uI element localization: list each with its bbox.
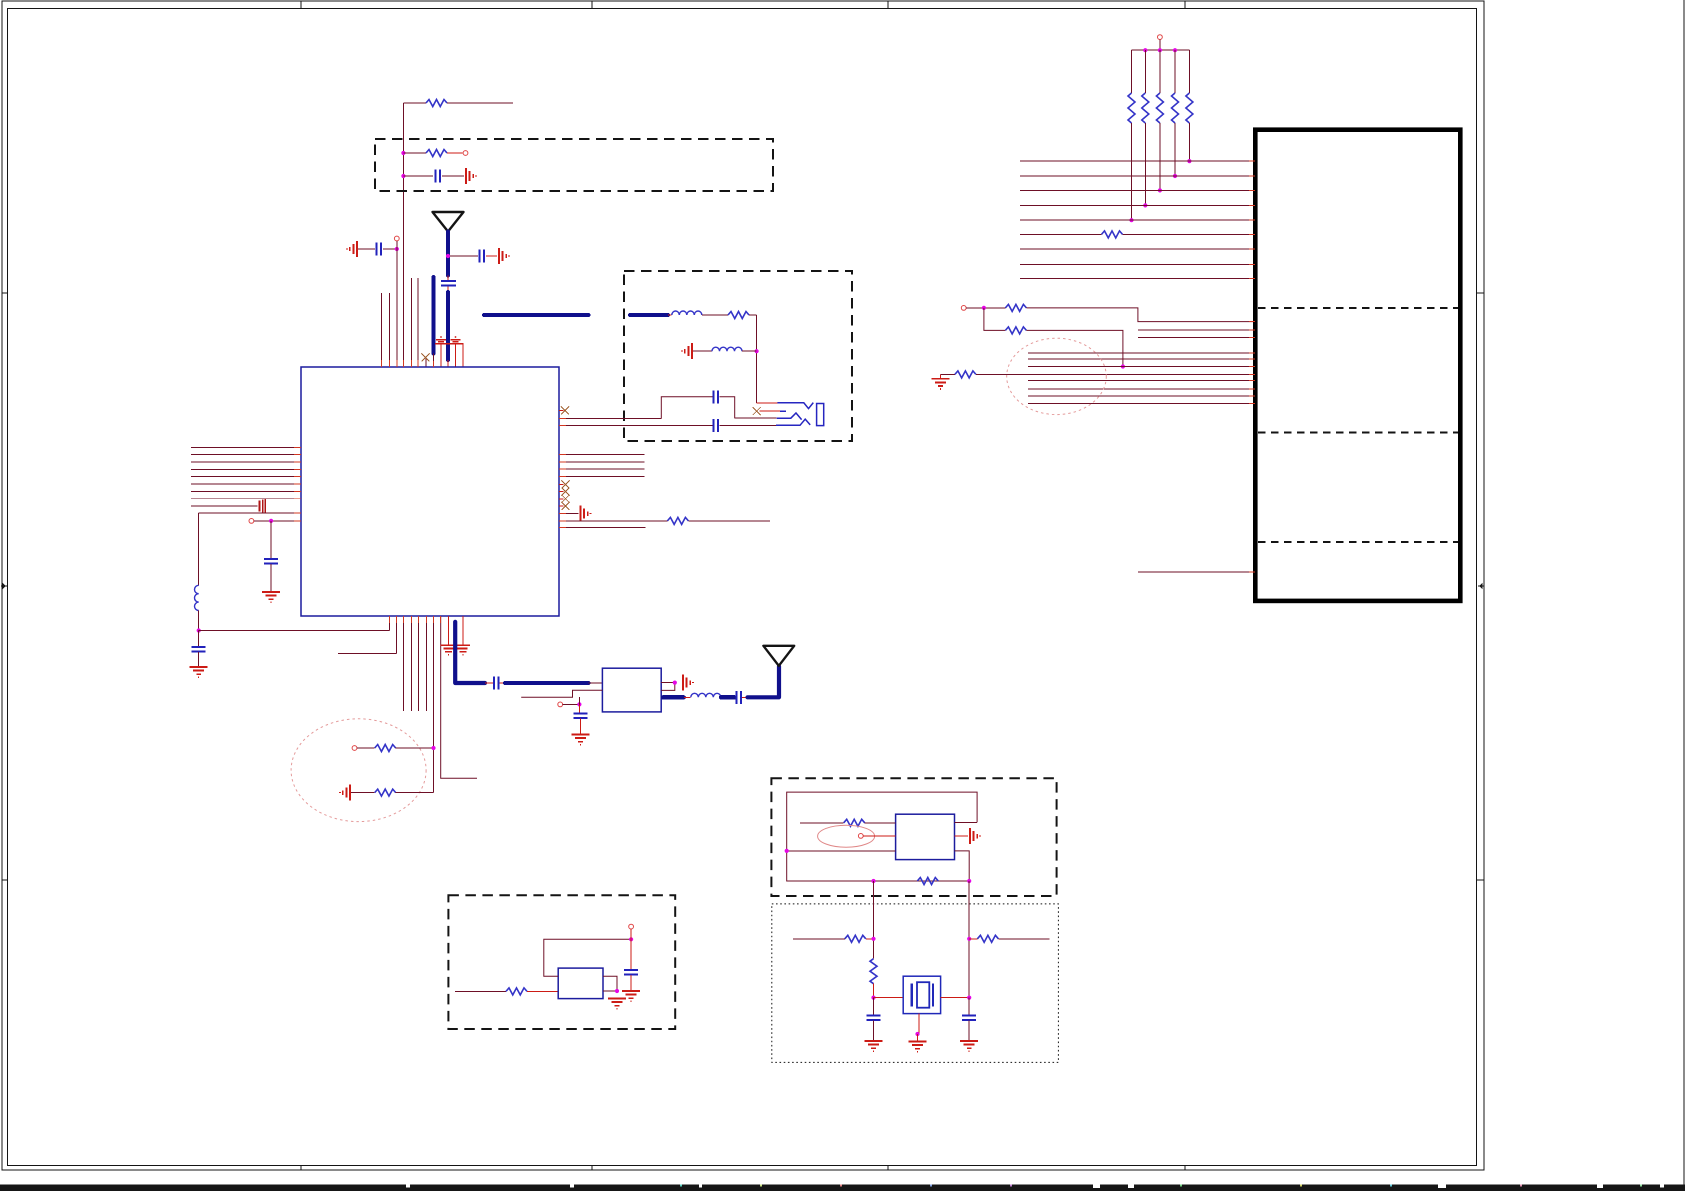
thick stub in box (630, 313, 668, 317)
wire (873, 984, 875, 998)
wire from terminal (254, 520, 301, 522)
resistor R_line6 (1102, 231, 1123, 238)
connector body (1255, 130, 1460, 601)
wire down from pin10 (198, 513, 200, 585)
zone tick right b (1477, 879, 1485, 881)
antenna ANT2 (763, 646, 794, 666)
dashed box region 3 (771, 778, 1056, 896)
dashed box region 2 (624, 271, 852, 441)
no connect X (561, 406, 569, 414)
terminal (558, 702, 563, 707)
ground (683, 675, 693, 691)
pin stubs red (441, 344, 463, 367)
nc stubs with X (559, 485, 564, 506)
title strip gaps (406, 1185, 1664, 1189)
resistor RP4 (1172, 50, 1179, 178)
wire from IC pin (559, 417, 661, 419)
shunt capacitor C_l1 (264, 521, 278, 591)
left entry wire (873, 881, 875, 959)
zone tick right a (1477, 292, 1485, 294)
ground (262, 592, 280, 602)
wire vertical net to pin (402, 103, 404, 367)
PA block U2 (602, 668, 661, 712)
antenna ANT1 (433, 212, 464, 232)
inductor L_left vertical (195, 585, 199, 610)
resistor R_b2 (340, 785, 434, 801)
junction (615, 989, 619, 993)
double ground bars (441, 645, 470, 655)
divider 1 (1258, 307, 1458, 309)
wire from IC pin 2 (559, 424, 713, 426)
power flag B (451, 336, 461, 342)
resistor R_o1 (800, 819, 896, 826)
resistor RP1 (1128, 50, 1135, 222)
junction (629, 937, 633, 941)
terminal (858, 834, 863, 839)
node junction (446, 254, 450, 258)
jack top wire (757, 402, 778, 404)
terminal (463, 151, 468, 156)
coupling loop wire (661, 397, 712, 419)
ground (970, 828, 980, 844)
pin wire (559, 527, 646, 529)
IC top pins (381, 278, 426, 367)
terminal (629, 924, 634, 929)
sheet right page edge (1683, 0, 1685, 1191)
capacitor C_m1 (714, 390, 719, 403)
regulator block U4 (558, 968, 603, 999)
zone tick bottom 2 (591, 1166, 593, 1171)
power flag A (436, 336, 446, 342)
resistor R_in1 (401, 150, 462, 157)
X marks (562, 481, 570, 510)
dashed box region 1 (375, 139, 773, 191)
ground (466, 168, 476, 184)
wire (447, 360, 449, 367)
capacitor C_v1 (624, 939, 638, 990)
wire (433, 354, 435, 368)
transmission line thick 2 (431, 277, 435, 354)
transmission line thick 3 (446, 292, 450, 360)
zone arrow left (1, 584, 7, 588)
resistor R_x1 (793, 935, 876, 942)
capacitor C_out (736, 691, 747, 704)
ground pin (955, 835, 969, 837)
RF out thick stub (663, 695, 684, 699)
junction (871, 996, 875, 1000)
zone tick bottom 3 (887, 1166, 889, 1171)
wire to jack bottom (720, 424, 777, 426)
resistor R_x2 (967, 935, 1049, 942)
zone tick top 1 (300, 1, 302, 9)
junction (269, 519, 273, 523)
connector pin tips red (1249, 161, 1255, 572)
capacitor C_in1 (401, 170, 464, 183)
IC U1 body (301, 367, 559, 616)
no connect X (422, 354, 430, 362)
resistor R_top (403, 100, 513, 107)
ground (608, 999, 626, 1009)
wire to crystal (874, 997, 904, 999)
zone arrow right (1478, 584, 1484, 588)
capacitor C_left with ground (347, 241, 399, 257)
rail (1132, 49, 1190, 51)
feedback loop wire (787, 792, 977, 881)
junction (967, 996, 971, 1000)
pin to ground 2 (462, 616, 464, 645)
resistor R_b1 (352, 745, 436, 752)
ground (581, 506, 591, 522)
small capacitor on pin (260, 499, 266, 513)
junction (197, 628, 201, 632)
zone tick bottom 1 (300, 1166, 302, 1171)
zone tick top 4 (1184, 1, 1186, 9)
resistor R_x3 vertical (870, 959, 877, 984)
crystal bottom stub (915, 1014, 919, 1041)
terminal VCC (1158, 35, 1163, 40)
pin wire long to resistors (433, 616, 435, 793)
bus stub lines (1138, 330, 1255, 337)
shunt capacitor C_l2 (192, 631, 206, 667)
junction (785, 849, 789, 853)
crystal Y1 (903, 976, 940, 1013)
osc block U3 (896, 814, 955, 859)
terminal (394, 236, 399, 241)
capacitor C_ant (450, 250, 497, 263)
input resistor R_v1 (455, 988, 558, 995)
ground (909, 1042, 927, 1052)
bottom right pin wire (955, 851, 970, 881)
right pin wire to loop (955, 821, 978, 823)
wire (1159, 40, 1161, 51)
capacitor C_m2 (714, 419, 719, 432)
zone tick top 2 (591, 1, 593, 9)
capacitor C_x1 (867, 998, 881, 1040)
resistor R_g2 (984, 308, 1125, 369)
transmission line thick (446, 232, 450, 276)
power rail bar (435, 343, 464, 345)
no connect X (753, 407, 761, 415)
pin bus 4 wires (559, 454, 645, 476)
ground (960, 1041, 978, 1051)
ground (622, 991, 640, 1001)
zone tick left b (2, 879, 8, 881)
jack nc stub (760, 410, 787, 412)
terminal (249, 519, 254, 524)
nc pin stub (559, 409, 564, 411)
junction (755, 349, 759, 353)
jack J1 contacts (776, 403, 813, 426)
capacitor C_series in antenna line (441, 276, 456, 293)
pin to ground (448, 616, 450, 645)
pin3 wire (787, 850, 896, 852)
title strip color specks (680, 1185, 1642, 1187)
wire from terminal (563, 703, 580, 705)
RF thick line to block (505, 681, 588, 685)
junction (577, 702, 581, 706)
junction (673, 681, 677, 685)
left pin bus 9 wires (191, 447, 301, 506)
wire (863, 835, 895, 837)
highlight ellipse small (818, 825, 875, 847)
loop wire right (720, 397, 735, 418)
zone tick left a (2, 292, 8, 294)
capacitor C_rf1 (485, 677, 506, 690)
pin wire elbow right (441, 616, 477, 778)
shunt capacitor C_pa (574, 704, 588, 733)
highlight ellipse (1007, 338, 1107, 414)
junctions (1143, 48, 1177, 52)
single pin wire lower (1138, 571, 1255, 573)
resistor R_g3 with ground (932, 371, 1255, 389)
wire down (756, 315, 758, 403)
dotted box crystal (772, 904, 1059, 1063)
resistor R_fb (871, 878, 971, 885)
terminal (961, 306, 966, 311)
wire (630, 929, 632, 939)
pin to ground (559, 513, 579, 515)
RF thick line from IC (455, 622, 485, 683)
wire jog to block (521, 690, 602, 697)
right pin wires (661, 683, 675, 691)
wire pin10 (199, 512, 301, 514)
ground (572, 735, 590, 745)
wire up (578, 697, 580, 704)
resistor R_r1 long line (559, 517, 770, 524)
divider 3 (1258, 541, 1458, 543)
thick segment (721, 695, 735, 699)
resistor R_m1 (728, 312, 757, 319)
thick bus segment (484, 313, 589, 317)
pin wire 1 (389, 616, 391, 631)
feedback wire (544, 939, 631, 976)
capacitor C_x2 (962, 998, 976, 1040)
wire crystal right (941, 997, 970, 999)
wire across bottom (199, 630, 390, 632)
inductor L_out (684, 693, 721, 697)
highlight ellipse (291, 719, 426, 822)
wire (589, 682, 603, 684)
resistor RP5 (1186, 50, 1193, 163)
inductor L_m2 with ground (682, 343, 757, 359)
dashed box region 4 (448, 895, 675, 1029)
wire (198, 611, 200, 631)
resistor RP3 (1156, 50, 1163, 192)
bus wires to connector (1020, 161, 1255, 279)
right pin wires (603, 976, 617, 991)
ground (865, 1041, 883, 1051)
pin wire 2 with stub (338, 616, 397, 653)
pin wires open group (404, 616, 427, 711)
resistor R_g1 (966, 304, 1255, 321)
wire bundle (1028, 353, 1255, 404)
wire (396, 241, 398, 367)
right entry wire (968, 881, 970, 998)
jack body (817, 404, 824, 426)
ground (190, 667, 208, 677)
zone tick top 3 (887, 1, 889, 9)
IC pin tips red (294, 360, 566, 623)
ground (499, 248, 509, 264)
wire to jack mid (735, 417, 777, 419)
resistor RP2 (1142, 50, 1149, 207)
divider 2 (1258, 431, 1458, 433)
inductor L_m1 (668, 311, 728, 315)
thick line to antenna (748, 666, 780, 697)
